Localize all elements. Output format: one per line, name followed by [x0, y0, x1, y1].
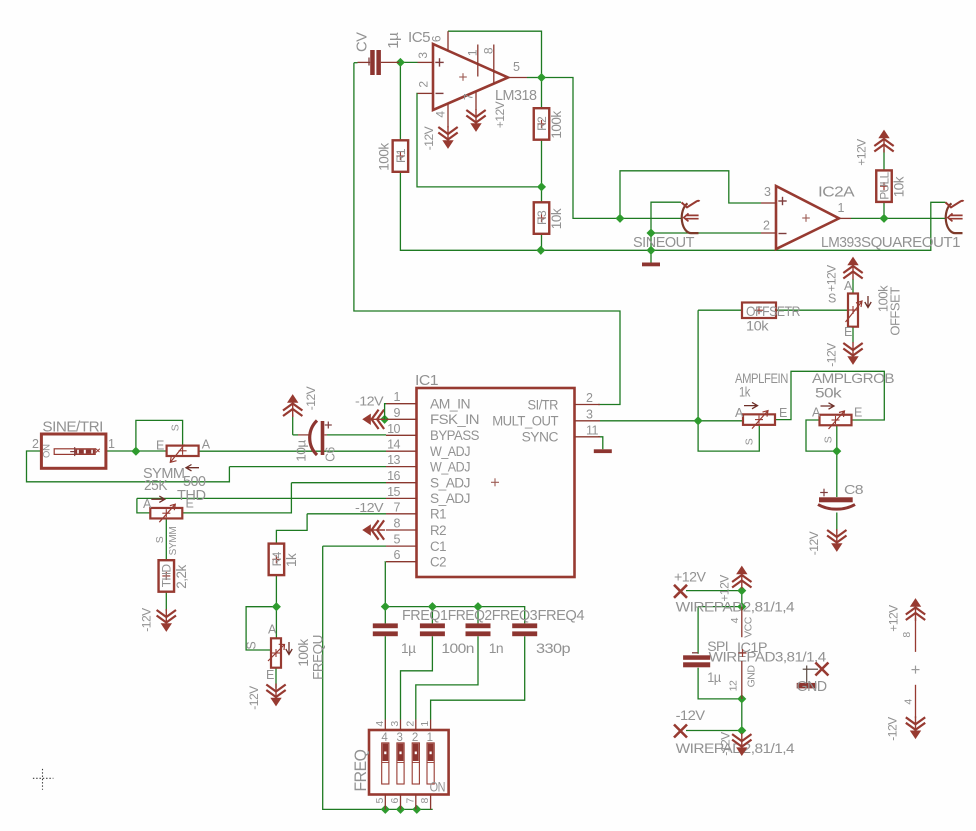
svg-text:1n: 1n — [489, 640, 504, 656]
svg-text:2: 2 — [412, 732, 418, 744]
svg-text:+12V: +12V — [718, 575, 732, 602]
svg-text:-12V: -12V — [140, 608, 154, 632]
svg-text:5: 5 — [394, 533, 401, 547]
svg-text:3: 3 — [397, 732, 403, 744]
svg-text:11: 11 — [586, 423, 599, 437]
svg-text:R1: R1 — [394, 148, 408, 163]
svg-text:1: 1 — [419, 721, 431, 727]
svg-text:A: A — [735, 406, 744, 420]
svg-text:OFFSET: OFFSET — [888, 287, 903, 336]
svg-text:12: 12 — [728, 680, 740, 691]
svg-text:S: S — [154, 536, 166, 543]
svg-text:-12V: -12V — [304, 386, 318, 410]
svg-text:+12V: +12V — [825, 265, 839, 292]
svg-text:S: S — [245, 642, 259, 650]
svg-text:+12V: +12V — [493, 101, 507, 128]
svg-text:-12V: -12V — [676, 707, 706, 723]
svg-text:THD: THD — [160, 564, 174, 588]
svg-text:C2: C2 — [430, 555, 446, 570]
svg-text:VCC: VCC — [743, 616, 755, 638]
svg-text:8: 8 — [482, 47, 496, 54]
svg-text:1: 1 — [427, 732, 433, 744]
svg-text:4: 4 — [902, 699, 914, 705]
svg-text:6: 6 — [389, 797, 401, 803]
svg-text:C6: C6 — [323, 447, 338, 462]
svg-text:3: 3 — [586, 407, 593, 421]
svg-text:3: 3 — [389, 721, 401, 727]
svg-text:C1: C1 — [430, 539, 446, 554]
svg-text:SINEOUT: SINEOUT — [633, 234, 694, 251]
svg-text:1: 1 — [394, 390, 401, 404]
svg-text:E: E — [779, 406, 787, 420]
svg-text:-12V: -12V — [355, 394, 384, 408]
svg-text:4: 4 — [729, 617, 741, 623]
svg-text:ON: ON — [430, 780, 446, 795]
svg-text:R1: R1 — [430, 507, 446, 522]
svg-text:IC5: IC5 — [408, 29, 430, 46]
svg-text:10k: 10k — [549, 208, 564, 229]
svg-text:+12V: +12V — [855, 139, 869, 166]
svg-text:-12V: -12V — [807, 531, 821, 555]
svg-text:E: E — [156, 438, 164, 452]
svg-text:THD: THD — [177, 487, 206, 504]
svg-text:R2: R2 — [430, 523, 446, 538]
svg-text:+12V: +12V — [674, 569, 707, 585]
svg-text:4: 4 — [374, 721, 386, 727]
svg-text:AM_IN: AM_IN — [430, 397, 470, 412]
svg-text:PULL: PULL — [877, 172, 891, 200]
svg-text:S_ADJ: S_ADJ — [430, 476, 470, 491]
svg-text:FREQU: FREQU — [311, 635, 326, 680]
svg-text:IC2A: IC2A — [818, 184, 855, 201]
svg-text:1: 1 — [466, 49, 480, 56]
svg-text:6: 6 — [394, 548, 401, 562]
svg-text:10µ: 10µ — [294, 439, 309, 462]
svg-text:3: 3 — [764, 185, 771, 199]
svg-text:SQUAREOUT1: SQUAREOUT1 — [861, 234, 960, 251]
svg-text:SYNC: SYNC — [522, 430, 559, 445]
svg-text:SINE/TRI: SINE/TRI — [42, 419, 103, 436]
svg-text:SYMM: SYMM — [168, 527, 179, 556]
svg-text:E: E — [844, 325, 852, 339]
svg-text:-12V: -12V — [355, 501, 384, 515]
svg-text:-12V: -12V — [422, 126, 436, 150]
svg-text:-12V: -12V — [247, 686, 261, 710]
svg-text:A: A — [844, 279, 853, 293]
svg-text:LM318: LM318 — [495, 87, 537, 104]
svg-text:7: 7 — [404, 797, 416, 803]
svg-text:1k: 1k — [284, 553, 299, 567]
svg-text:2: 2 — [32, 437, 39, 451]
svg-text:9: 9 — [394, 406, 401, 420]
svg-text:1µ: 1µ — [707, 669, 721, 685]
svg-text:R4: R4 — [270, 551, 284, 566]
svg-text:14: 14 — [387, 438, 400, 452]
svg-text:W_ADJ: W_ADJ — [430, 459, 470, 474]
svg-text:10: 10 — [387, 422, 400, 436]
svg-text:E: E — [266, 668, 274, 682]
svg-text:W_ADJ: W_ADJ — [430, 444, 470, 459]
svg-text:100k: 100k — [549, 111, 564, 139]
svg-text:-12V: -12V — [719, 732, 733, 756]
svg-text:+12V: +12V — [887, 605, 901, 632]
svg-text:R2: R2 — [535, 116, 549, 131]
svg-text:FSK_IN: FSK_IN — [430, 412, 479, 427]
svg-text:A: A — [143, 497, 152, 511]
svg-text:FREQ: FREQ — [351, 749, 370, 791]
svg-text:S: S — [828, 292, 836, 306]
svg-text:4: 4 — [434, 111, 448, 118]
svg-text:8: 8 — [901, 632, 913, 638]
svg-text:IC1: IC1 — [415, 372, 438, 389]
svg-text:5: 5 — [374, 797, 386, 803]
svg-text:WIREPAD3,81/1,4: WIREPAD3,81/1,4 — [709, 648, 827, 664]
svg-text:S_ADJ: S_ADJ — [430, 491, 470, 506]
svg-text:10k: 10k — [746, 318, 770, 334]
svg-text:BYPASS: BYPASS — [430, 428, 479, 443]
svg-text:A: A — [202, 438, 211, 452]
svg-text:S: S — [744, 438, 756, 445]
svg-text:1: 1 — [838, 201, 845, 215]
svg-text:ON: ON — [42, 444, 53, 458]
svg-text:C8: C8 — [844, 482, 863, 497]
svg-text:8: 8 — [394, 517, 401, 531]
svg-text:3: 3 — [416, 52, 430, 59]
svg-text:GND: GND — [797, 678, 828, 695]
svg-text:8: 8 — [419, 797, 431, 803]
svg-text:6: 6 — [430, 35, 444, 42]
svg-text:7: 7 — [394, 500, 401, 514]
svg-text:330p: 330p — [536, 640, 571, 656]
svg-text:7: 7 — [462, 93, 476, 100]
svg-text:1k: 1k — [739, 384, 751, 400]
svg-text:CV: CV — [355, 32, 371, 52]
svg-text:100k: 100k — [377, 143, 392, 171]
svg-text:E: E — [854, 406, 862, 420]
svg-text:S: S — [823, 436, 835, 443]
svg-text:WIREPAD2,81/1,4: WIREPAD2,81/1,4 — [676, 599, 795, 615]
svg-text:2: 2 — [404, 721, 416, 727]
svg-text:A: A — [268, 623, 277, 637]
svg-text:-12V: -12V — [885, 717, 899, 741]
svg-text:FREQ2: FREQ2 — [448, 607, 492, 624]
svg-text:10k: 10k — [892, 176, 907, 197]
svg-text:2: 2 — [417, 81, 431, 88]
svg-text:-12V: -12V — [825, 343, 839, 367]
svg-text:R3: R3 — [535, 210, 549, 225]
svg-text:MULT_OUT: MULT_OUT — [492, 414, 558, 429]
svg-text:13: 13 — [387, 453, 400, 467]
svg-text:SI/TR: SI/TR — [528, 397, 559, 412]
svg-text:1µ: 1µ — [386, 32, 402, 49]
svg-text:2,2k: 2,2k — [174, 564, 189, 588]
svg-text:16: 16 — [387, 469, 400, 483]
svg-text:1µ: 1µ — [401, 640, 416, 656]
svg-text:100n: 100n — [441, 640, 474, 656]
svg-text:A: A — [812, 406, 821, 420]
svg-text:S: S — [170, 424, 182, 431]
svg-text:1: 1 — [108, 437, 115, 451]
svg-text:GND: GND — [746, 665, 758, 688]
svg-text:50k: 50k — [815, 385, 843, 401]
svg-text:FREQ3: FREQ3 — [492, 607, 538, 624]
svg-text:25K: 25K — [144, 477, 167, 494]
svg-text:15: 15 — [387, 485, 400, 499]
svg-text:5: 5 — [513, 60, 520, 74]
svg-text:LM393: LM393 — [821, 234, 861, 251]
svg-text:FREQ1: FREQ1 — [402, 607, 448, 624]
svg-text:100k: 100k — [296, 639, 311, 667]
svg-text:FREQ4: FREQ4 — [538, 607, 585, 624]
svg-text:2: 2 — [586, 391, 593, 405]
svg-text:2: 2 — [763, 219, 770, 233]
